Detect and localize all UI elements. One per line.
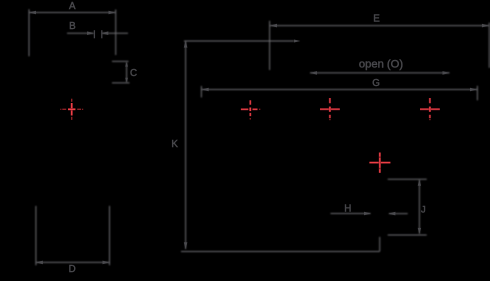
svg-text:open (O): open (O) (359, 59, 403, 71)
svg-text:K: K (171, 139, 178, 150)
svg-text:D: D (69, 264, 76, 275)
svg-text:E: E (373, 14, 380, 25)
svg-text:B: B (69, 21, 76, 32)
svg-text:H: H (344, 203, 351, 214)
svg-text:C: C (130, 68, 137, 79)
svg-text:J: J (421, 204, 426, 215)
svg-text:A: A (69, 1, 76, 12)
svg-text:G: G (372, 78, 380, 89)
